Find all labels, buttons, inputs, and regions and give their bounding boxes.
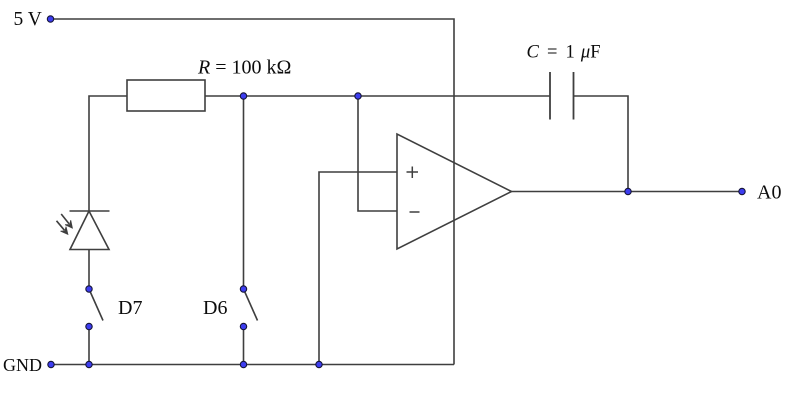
op-amp plus input sign xyxy=(407,167,419,179)
node GND terminal xyxy=(48,361,54,367)
photodiode light arrow lower xyxy=(57,221,68,235)
wire D6 column from main row node xyxy=(243,96,245,289)
capacitor C plates xyxy=(550,72,574,120)
wire 5V top rail down to bottom-rail end xyxy=(54,19,454,365)
photodiode light arrow upper xyxy=(61,214,72,228)
node switch D7 top xyxy=(86,286,92,292)
wire switch D7 bottom to GND rail xyxy=(88,327,90,365)
node A0 terminal xyxy=(739,188,745,194)
node non-inverting on GND rail xyxy=(316,361,322,367)
wire photodiode anode down to switch D7 xyxy=(88,250,90,290)
node D6 on GND rail xyxy=(240,361,246,367)
wire capacitor right plate down to output xyxy=(574,96,629,192)
node D7 on GND rail xyxy=(86,361,92,367)
node main row / inverting column junction xyxy=(355,93,361,99)
node switch D6 top xyxy=(240,286,246,292)
wire resistor left lead and photodiode column xyxy=(89,96,127,211)
svg-text:5 V: 5 V xyxy=(14,9,42,30)
node 5V terminal xyxy=(47,16,53,22)
node switch D6 bottom xyxy=(240,323,246,329)
wire non-inverting input to GND rail xyxy=(319,172,397,365)
wire op-amp output to A0 xyxy=(512,191,743,193)
photodiode D (cathode bar and triangle) xyxy=(70,211,110,250)
wire switch D6 bottom to GND rail xyxy=(243,327,245,365)
node main row / D6 column junction xyxy=(240,93,246,99)
wire bottom GND rail xyxy=(51,364,454,366)
op-amp minus input sign xyxy=(410,211,420,213)
resistor R xyxy=(127,80,205,111)
svg-text:A0: A0 xyxy=(757,182,781,204)
node feedback junction on output xyxy=(625,188,631,194)
wire inverting input from main row node xyxy=(358,96,397,211)
switch D7 blade xyxy=(89,289,103,321)
wire main row: resistor right lead to capacitor left plate xyxy=(205,95,550,97)
node switch D7 bottom xyxy=(86,323,92,329)
svg-text:D7: D7 xyxy=(118,297,142,319)
svg-text:GND: GND xyxy=(3,355,42,375)
svg-text:R = 100 kΩ: R = 100 kΩ xyxy=(197,57,291,79)
op-amp U1 triangle xyxy=(397,134,512,249)
switch D6 blade xyxy=(244,289,258,321)
svg-text:D6: D6 xyxy=(203,297,227,319)
